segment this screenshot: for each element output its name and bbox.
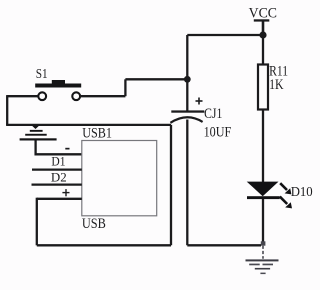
svg-text:VCC: VCC — [249, 6, 277, 22]
switch S1 right terminal circle — [72, 92, 80, 100]
switch S1 bar — [35, 84, 81, 88]
battery/ground symbol bar 3 (bottom, long) — [20, 138, 57, 140]
switch S1 left terminal circle — [38, 92, 46, 100]
wire: junction down to capacitor top plate — [186, 79, 188, 110]
wire: S1 right terminal to step corner — [80, 95, 125, 97]
resistor R11 body — [258, 65, 268, 110]
wire: step horizontal to capacitor branch node — [125, 78, 187, 80]
wire: lower-left rail horizontal (wire A) — [6, 124, 171, 126]
USB1 connector box — [82, 141, 157, 216]
wire: left rail horizontal to S1 left terminal — [7, 95, 38, 97]
svg-text:USB: USB — [82, 216, 106, 232]
LED D10 emission arrow 1 — [280, 183, 291, 194]
LED D10 emission arrow 2 — [280, 197, 292, 209]
node: junction square at bottom right — [261, 241, 266, 245]
wire: capacitor bottom plate down to bottom wire — [186, 120, 188, 246]
wire: left loop right vertical up to wire A — [170, 125, 172, 245]
svg-text:D10: D10 — [291, 184, 313, 199]
pin label plus — [62, 189, 69, 196]
wire: bottom horizontal from capacitor branch to ground node — [187, 244, 261, 246]
wire: battery bottom down then right to USB minus pin — [36, 141, 82, 155]
wire: capacitor branch vertical up to top wire — [186, 35, 188, 79]
capacitor CJ1 top plate — [171, 110, 204, 112]
svg-text:USB1: USB1 — [82, 125, 112, 141]
battery/ground symbol on left: connector triangle — [32, 125, 40, 129]
battery/ground symbol bar 2 (middle) — [25, 134, 47, 136]
svg-text:1K: 1K — [269, 77, 284, 93]
wire: USB plus pin to left loop — [37, 198, 82, 200]
node: capacitor branch junction dot — [184, 76, 191, 83]
LED D10 triangle (anode) — [247, 182, 279, 197]
svg-text:CJ1: CJ1 — [204, 106, 222, 122]
wire: resistor to LED anode — [262, 110, 264, 183]
wire: step vertical — [124, 79, 126, 96]
wire: left loop vertical down — [36, 198, 38, 246]
svg-text:D1: D1 — [51, 153, 65, 168]
wire: LED cathode down to ground node — [262, 199, 264, 243]
wire: D1 pin — [32, 168, 82, 170]
power VCC bar — [254, 19, 269, 21]
wire: VCC stub vertical — [262, 21, 265, 36]
ground (earth) bottom right — [246, 246, 279, 274]
svg-text:10UF: 10UF — [204, 124, 232, 140]
wire: left rail vertical — [6, 95, 8, 125]
switch S1 actuator knob — [52, 80, 65, 84]
capacitor CJ1 bottom plate arc — [170, 117, 202, 123]
svg-text:D2: D2 — [51, 169, 67, 184]
node: VCC junction dot — [259, 31, 266, 38]
wire: left loop bottom horizontal — [37, 244, 171, 246]
wire: D2 pin — [32, 183, 82, 185]
battery/ground symbol bar 1 (top, short) — [30, 130, 43, 132]
capacitor CJ1 polarity plus — [196, 98, 203, 105]
pin label minus — [65, 148, 69, 150]
LED D10 cathode bar — [247, 196, 280, 199]
svg-text:S1: S1 — [36, 67, 48, 82]
wire: top horizontal from capacitor branch to VCC node — [187, 34, 263, 36]
wire: VCC node down to resistor R11 — [262, 35, 264, 65]
